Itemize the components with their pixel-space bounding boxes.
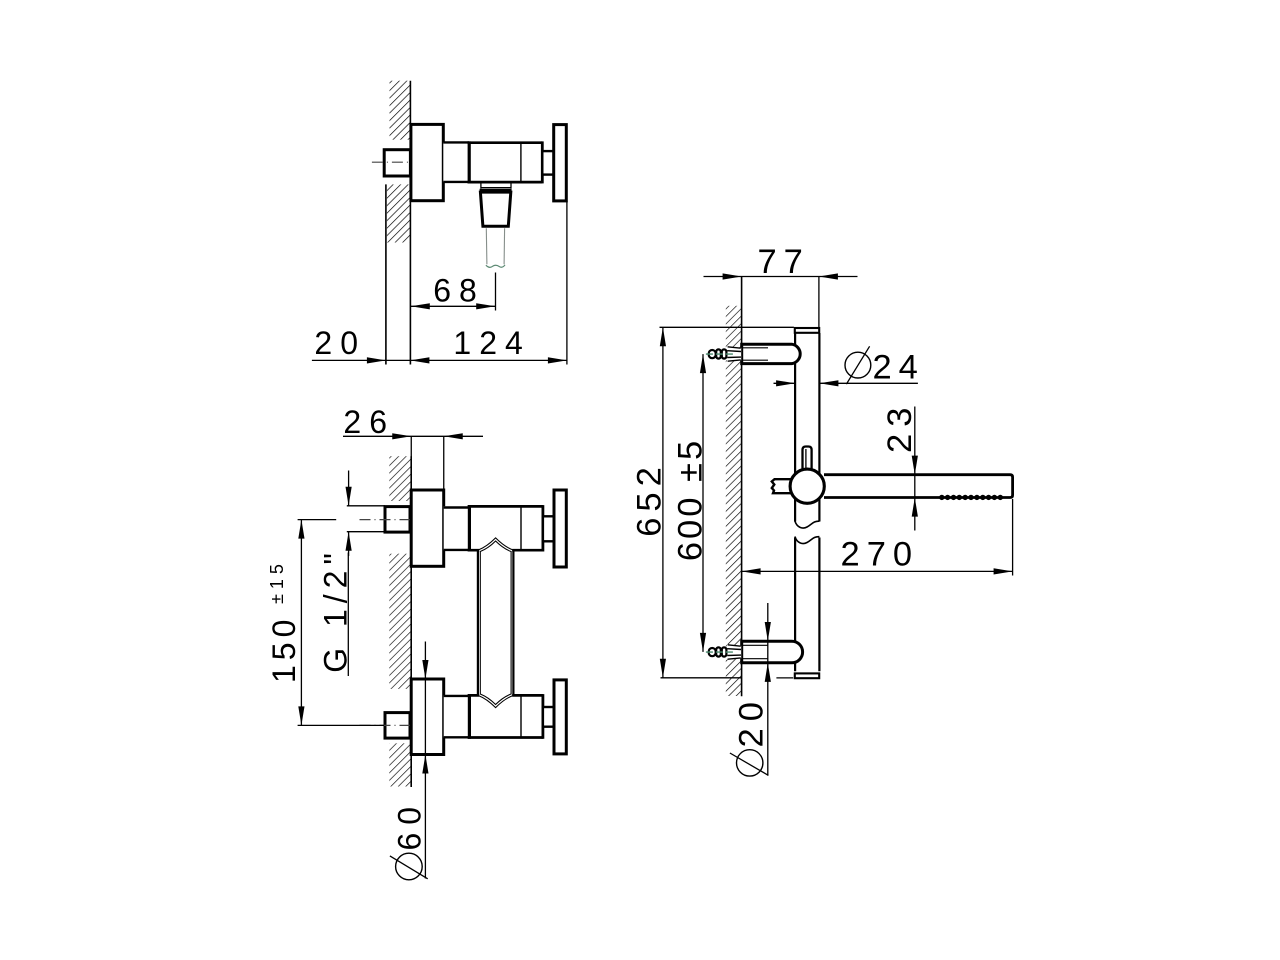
bottom valve body bottom edge (front view) (468, 736, 543, 739)
handle stub (top view) (542, 151, 553, 175)
spout collar bottom thin line (481, 187, 511, 189)
dim 23 down arrow (912, 456, 918, 475)
dim 124 left arrow (410, 357, 429, 363)
wall line right (top view) (409, 81, 411, 365)
dim 150 bottom arrow (298, 706, 304, 725)
top screw anchor lower wing (728, 360, 741, 361)
dim 26 ext line right (443, 436, 445, 489)
rail bottom cap (795, 673, 819, 678)
dim 270 left arrow (742, 568, 761, 574)
phi20 symbol circle (737, 750, 763, 776)
top screw body bottom line (727, 356, 741, 358)
top valve neck bottom edge (front view) (444, 549, 470, 551)
thread arrow line upper (348, 471, 350, 506)
spout thick ring (480, 189, 512, 192)
top screw ring 3 (722, 349, 727, 358)
top valve body bottom edge (front view) (468, 549, 543, 552)
bottom screw head ring (709, 648, 716, 656)
top screw centerline (706, 353, 736, 355)
slider knob (803, 447, 812, 471)
dim phi24 line left segment (774, 382, 796, 384)
valve body top edge (top view) (468, 141, 543, 144)
valve cap right edge (top view) (541, 141, 544, 183)
dim phi20 up arrow (765, 663, 771, 682)
wall line left (top view) (385, 184, 387, 364)
bottom inlet square (front view) (385, 713, 410, 739)
rail left line (794, 333, 796, 671)
top valve body left edge (front view) (468, 505, 471, 551)
bottom handle flange (front view) (554, 680, 566, 754)
connecting pipe right outer line (512, 550, 514, 695)
phi60 symbol circle (396, 853, 423, 880)
dim 23 line lower (914, 475, 916, 531)
slider hose clip (772, 479, 791, 493)
top bracket inner line upper (742, 347, 768, 349)
top valve body/cap divider (front view) (520, 506, 522, 550)
top valve cap right edge (front view) (542, 505, 545, 551)
dim 600 down arrow (700, 633, 706, 652)
wall hatch (side view) (726, 306, 742, 696)
dim 270 right arrow (994, 568, 1013, 574)
dim 652 ext bottom segment 1 (661, 677, 742, 679)
dim phi60 down arrow (422, 660, 428, 679)
dim phi20 line (767, 603, 769, 776)
dim 652 down arrow (660, 659, 666, 678)
pipe top arch inner (481, 541, 511, 551)
bottom screw anchor white wedge (727, 644, 741, 659)
dim phi24 right arrow (819, 380, 838, 386)
svg-text:600 ±5: 600 ±5 (672, 438, 710, 561)
connecting pipe left outer line (477, 550, 479, 695)
bottom screw body bottom line (727, 654, 741, 656)
phi60 symbol slash (390, 856, 428, 879)
dim 270 ext right (1012, 499, 1014, 576)
valve neck top edge (top view) (443, 141, 469, 143)
spout collar left line (480, 182, 482, 188)
dim 77 left arrow (723, 273, 742, 279)
dim 26 ext line left (410, 436, 412, 489)
wall hatch (front view, segment A) (389, 456, 411, 501)
rail right line (818, 333, 820, 671)
dim phi60 up arrow (422, 755, 428, 774)
svg-text:68: 68 (433, 273, 485, 309)
hand shower spray dots (939, 495, 1003, 500)
top valve assembly fill (front view) (444, 506, 543, 550)
top escutcheon (front view) (411, 490, 444, 566)
bottom bracket arm (742, 641, 803, 663)
spout tapered body (480, 192, 510, 226)
wall hatch (top view, upper segment) (390, 81, 411, 140)
pipe bottom arch outer (479, 696, 513, 708)
top valve body top edge (front view) (468, 505, 543, 508)
dim 270 line (742, 570, 1013, 572)
thread down arrow (346, 487, 352, 506)
bottom valve body left edge (front view) (468, 694, 471, 739)
top valve neck top edge (front view) (444, 506, 470, 508)
top bracket arm (742, 344, 801, 363)
wall hatch (front view, segment B) (389, 554, 411, 689)
wall hatch (top view, lower segment) (387, 184, 411, 242)
wall hatch (front view, segment C) (389, 743, 411, 786)
dim 68 left arrow (411, 303, 430, 309)
top bracket inner line lower (742, 359, 768, 361)
inlet square nut (top view) (384, 150, 410, 176)
spout collar right line (510, 182, 512, 188)
connecting pipe right inner line (510, 551, 512, 695)
bottom valve neck top edge (front view) (444, 695, 470, 697)
dim 150 line (300, 520, 302, 726)
thread up arrow (346, 532, 352, 551)
dim phi24 left arrow (776, 380, 795, 386)
valve body left edge (top view) (468, 141, 471, 183)
bottom valve body/cap divider (front view) (520, 695, 522, 737)
svg-text:77: 77 (758, 243, 810, 281)
bottom bracket inner line upper (742, 644, 768, 646)
dim 68 line (411, 305, 495, 307)
dim 23 line upper (914, 407, 916, 475)
svg-text:60: 60 (392, 799, 428, 851)
bottom valve cap right edge (front view) (542, 694, 545, 739)
top screw head ring (709, 350, 716, 358)
dim 150 ext bottom (298, 724, 384, 726)
dim 600 up arrow (700, 354, 706, 373)
valve assembly fill (top view) (443, 142, 542, 182)
pipe top opening mask (479, 546, 512, 552)
top handle flange (front view) (554, 490, 566, 567)
dim phi20 down arrow (765, 622, 771, 641)
svg-text:150: 150 (266, 615, 302, 683)
connecting pipe left inner line (479, 551, 481, 695)
pipe bottom arch inner (481, 694, 511, 704)
svg-text:652: 652 (630, 461, 668, 537)
svg-text:270: 270 (841, 535, 920, 573)
bottom inlet centerline (front view) (360, 724, 415, 726)
valve body/cap divider (top view) (520, 143, 522, 182)
rail break wave lower (795, 537, 820, 544)
top inlet square (front view) (385, 507, 410, 532)
bottom bracket inner line lower (742, 658, 768, 660)
thread ext line bottom (347, 531, 385, 533)
thread ext line top (347, 505, 385, 507)
top handle stub (front view) (543, 516, 554, 541)
dim 26 line (343, 435, 483, 437)
phi20 symbol slash (730, 753, 769, 775)
dim 26 right arrow (444, 433, 463, 439)
dim 600 line (702, 354, 704, 652)
valve body bottom edge (top view) (468, 181, 543, 184)
handle flange (top view) (554, 125, 567, 201)
bottom valve neck bottom edge (front view) (444, 736, 470, 738)
dim 68 extension line (stream centerline) (495, 273, 497, 311)
hand shower handle (824, 475, 1013, 498)
phi24 symbol slash (846, 346, 869, 384)
thread arrow line lower (348, 532, 350, 556)
dim 20/124 line (312, 359, 567, 361)
slider body circle (790, 469, 824, 503)
svg-text:24: 24 (873, 349, 925, 387)
dim 20 arrow (367, 357, 386, 363)
water stream wavy end (486, 265, 505, 268)
dim 77 ext line right (818, 277, 820, 328)
pipe top arch outer (479, 538, 513, 550)
svg-text:20: 20 (733, 695, 771, 747)
water stream left line (485, 228, 488, 264)
inlet centerline (top view) (372, 161, 415, 163)
dim 124 extension line (flange) (566, 201, 568, 365)
wall line (front view) (410, 456, 412, 787)
dim 124 right arrow (548, 357, 567, 363)
bottom escutcheon (front view) (411, 679, 444, 755)
dim 150 ext top (298, 519, 337, 521)
dim phi60 line (424, 642, 426, 879)
bottom screw body top line (727, 648, 741, 651)
rail top cap (795, 328, 819, 333)
top screw anchor upper wing (728, 347, 741, 348)
wall line (side view) (741, 277, 743, 697)
dim 23 up arrow (912, 498, 918, 517)
dim phi24 line right segment (819, 382, 918, 384)
svg-text:20: 20 (314, 325, 366, 361)
escutcheon (top view) (411, 124, 443, 200)
bottom screw ring 3 (722, 647, 727, 656)
rail break blank gap (793, 522, 822, 538)
dim 652 up arrow (660, 327, 666, 346)
top screw anchor white wedge (727, 346, 741, 361)
dim 150 top arrow (298, 520, 304, 539)
bottom screw anchor lower wing (728, 658, 741, 659)
rail break wave upper (795, 521, 820, 528)
dim 77 right arrow (819, 273, 838, 279)
bottom valve assembly fill (front view) (444, 695, 543, 737)
dim 652 line (662, 327, 664, 678)
svg-text:124: 124 (453, 325, 530, 361)
label G 1/2 underline (347, 553, 349, 677)
bottom screw ring 2 (716, 647, 721, 656)
dim 68 right arrow (476, 303, 495, 309)
dim 652 ext bottom segment 2 (776, 677, 793, 679)
bottom handle stub (front view) (543, 707, 554, 727)
top screw ring 2 (716, 349, 721, 358)
svg-text:±15: ±15 (267, 559, 287, 604)
svg-text:23: 23 (881, 401, 919, 453)
water stream right line (503, 228, 506, 264)
slider knob inner line (805, 449, 807, 470)
dim 77 line (704, 276, 858, 278)
svg-text:26: 26 (343, 404, 395, 440)
bottom screw anchor upper wing (728, 645, 741, 646)
bottom valve body top edge (front view) (468, 694, 543, 697)
top inlet centerline (front view) (360, 519, 415, 521)
valve neck bottom edge (top view) (443, 181, 469, 183)
pipe bottom opening mask (479, 694, 512, 700)
phi24 symbol circle (845, 352, 871, 378)
top screw body top line (727, 350, 741, 353)
dim 652 ext top (660, 326, 794, 328)
bottom screw centerline (706, 651, 736, 653)
dim 26 left arrow (392, 433, 411, 439)
